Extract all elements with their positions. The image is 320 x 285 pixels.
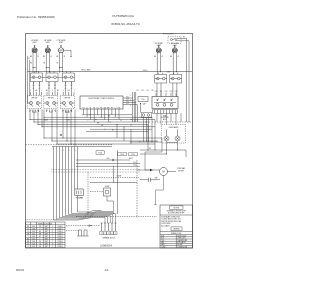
svg-text:GY: GY: [39, 236, 41, 238]
svg-text:BK: BK: [43, 56, 45, 58]
oven lamp B1: [164, 136, 169, 141]
svg-text:WHT: WHT: [45, 226, 48, 228]
svg-text:V: V: [39, 238, 40, 240]
svg-text:OVEN CTRL: OVEN CTRL: [177, 238, 185, 240]
EOC right side wires: [123, 97, 133, 99]
fan feed elbow: [145, 138, 162, 170]
svg-text:Publication No. 5995530026: Publication No. 5995530026: [17, 15, 55, 19]
svg-text:N: N: [47, 110, 48, 112]
infinite switch assembly A3: [60, 96, 74, 109]
svg-text:BLK: BLK: [32, 238, 35, 240]
svg-text:CONVECTION: CONVECTION: [177, 246, 187, 248]
EOC pin drop wires: [83, 113, 85, 115]
svg-text:CODE 8: CODE 8: [57, 246, 62, 248]
svg-text:P13: P13: [170, 91, 173, 93]
relay board K1: [152, 97, 178, 109]
svg-text:P14: P14: [175, 91, 178, 93]
console partition dashed left: [26, 144, 113, 146]
svg-text:240V: 240V: [167, 72, 171, 74]
dashed wire to terminal block: [66, 225, 100, 227]
svg-text:1: 1: [30, 90, 31, 92]
partition dashed right: [152, 121, 193, 123]
wires from left switches down: [33, 82, 35, 96]
svg-text:BK: BK: [27, 226, 29, 228]
right mid wire y150: [140, 149, 186, 151]
svg-text:WHT: WHT: [45, 236, 48, 238]
main bus wire y72: [28, 71, 193, 73]
center bus wires: [82, 114, 132, 116]
dotted wire above table: [26, 219, 59, 221]
svg-text:P2: P2: [137, 90, 139, 92]
svg-text:WIRE COLOR CODE: WIRE COLOR CODE: [38, 223, 52, 225]
svg-text:WHT: WHT: [45, 233, 48, 235]
terminal block label boxes: [100, 232, 103, 235]
lower bus top line: [52, 146, 112, 148]
svg-text:CODE 1: CODE 1: [57, 228, 62, 230]
svg-text:L05B0054: L05B0054: [100, 244, 112, 248]
relay output drop wires: [156, 113, 158, 122]
svg-text:HI-LIMIT: HI-LIMIT: [177, 244, 183, 246]
right edge wires from P9: [186, 46, 188, 122]
wires from right switches down: [156, 83, 158, 97]
svg-text:BK-W: BK-W: [44, 120, 49, 122]
label row ticks: [30, 92, 32, 96]
connector pair CN1: [142, 114, 145, 117]
svg-text:BU: BU: [27, 238, 29, 240]
svg-text:H2: H2: [57, 90, 59, 92]
svg-text:P12: P12: [165, 91, 168, 93]
svg-text:-19-: -19-: [104, 268, 109, 272]
svg-text:CODE 3: CODE 3: [57, 233, 62, 235]
svg-text:BLK: BLK: [32, 226, 35, 228]
bus right end drops: [151, 117, 153, 142]
svg-text:WHT: WHT: [45, 241, 48, 243]
svg-text:8/6/03: 8/6/03: [16, 268, 24, 272]
lower solid wire: [90, 182, 137, 184]
svg-text:MDL: MDL: [163, 119, 166, 121]
svg-text:GY: GY: [27, 243, 29, 245]
relay top pin wires: [155, 93, 157, 97]
svg-text:P7-B: P7-B: [131, 154, 134, 156]
svg-text:INF SW: INF SW: [32, 98, 38, 100]
mid horizontal wire 3: [57, 143, 155, 145]
switch assembly drop wires: [43, 110, 45, 139]
svg-text:BK: BK: [149, 148, 151, 150]
legend notes box: [160, 205, 193, 248]
svg-text:TOD: TOD: [161, 240, 164, 242]
svg-text:CODE 6: CODE 6: [57, 241, 62, 243]
switch tie wires: [43, 76, 47, 78]
svg-text:LEGEND: LEGEND: [173, 229, 180, 231]
svg-text:CONV: CONV: [161, 246, 165, 248]
svg-text:BLK: BLK: [32, 236, 35, 238]
element leads right duo: [156, 55, 158, 74]
surface switch S2: [46, 73, 58, 82]
lamp bottom drops: [166, 143, 168, 154]
svg-text:BK: BK: [154, 56, 156, 58]
svg-text:BR: BR: [97, 123, 99, 125]
svg-text:W/B43-SC-463A4-TC: W/B43-SC-463A4-TC: [111, 22, 141, 26]
relay connector strip: [153, 110, 178, 113]
lower horizontal wires: [76, 159, 130, 161]
svg-text:SWITCH SHOWN WITH THE: SWITCH SHOWN WITH THE: [161, 221, 181, 223]
svg-text:H1: H1: [30, 63, 32, 65]
svg-text:PLT568WKCQA: PLT568WKCQA: [112, 14, 134, 18]
svg-text:P1 CONN: P1 CONN: [76, 197, 84, 199]
svg-text:TN: TN: [39, 243, 41, 245]
svg-text:SP-12 RED: SP-12 RED: [81, 70, 91, 72]
oven lamp B2: [175, 136, 180, 141]
svg-text:H1: H1: [46, 90, 48, 92]
svg-text:P13: P13: [126, 99, 129, 101]
right lamp feed elbow: [158, 141, 174, 148]
electronic oven control EOC: [80, 96, 123, 109]
svg-text:P11: P11: [160, 91, 163, 93]
svg-text:OR: OR: [39, 226, 41, 228]
svg-text:WHT: WHT: [45, 238, 48, 240]
svg-text:P6: P6: [147, 90, 149, 92]
L2 feed wire: [29, 60, 31, 96]
svg-text:PK: PK: [39, 241, 41, 243]
svg-text:H2: H2: [35, 90, 37, 92]
mid horizontal wire 2: [52, 140, 158, 142]
infinite switch assembly A1: [27, 96, 41, 109]
svg-text:WHT: WHT: [45, 228, 48, 230]
infinite switch assembly A2: [44, 96, 58, 109]
svg-text:P14: P14: [126, 101, 129, 103]
svg-text:CODE 0: CODE 0: [57, 226, 62, 228]
element lead pair ties: [33, 67, 36, 69]
svg-text:▼ P9 LIGHTS: ▼ P9 LIGHTS: [163, 33, 175, 35]
svg-text:BLK: BLK: [32, 241, 35, 243]
svg-text:DLB: DLB: [161, 235, 164, 237]
dashed bundle line: [76, 215, 157, 217]
svg-text:DOOR OPEN.: DOOR OPEN.: [161, 223, 171, 225]
svg-text:R: R: [130, 125, 131, 127]
svg-text:BLK: BLK: [32, 231, 35, 233]
surface switch S4 (right rear): [155, 74, 167, 83]
svg-text:BLK: BLK: [32, 233, 35, 235]
svg-text:INF SW: INF SW: [65, 98, 71, 100]
door dashed wire: [90, 177, 139, 179]
svg-text:2: 2: [41, 90, 42, 92]
svg-text:BLK: BLK: [32, 246, 35, 248]
svg-text:V: V: [28, 246, 29, 248]
bus vertical drops right: [116, 124, 118, 138]
harness label cluster: [118, 153, 127, 156]
harness vertical pair: [117, 150, 119, 214]
svg-text:BK: BK: [183, 37, 185, 39]
svg-text:P15: P15: [126, 103, 129, 105]
CN1 drop wires: [143, 118, 145, 142]
relay contacts: [156, 103, 159, 106]
svg-text:P12: P12: [126, 97, 129, 99]
assembly drop connectors: [29, 110, 31, 120]
bus junction dots: [90, 114, 91, 115]
bundle elbows and diagonals: [54, 218, 106, 224]
thermal switch TOD: [138, 97, 148, 102]
svg-text:CODE 2: CODE 2: [57, 231, 62, 233]
svg-text:L1: L1: [28, 58, 30, 60]
dashed lead to comb: [66, 230, 79, 232]
svg-text:BR: BR: [39, 233, 41, 235]
svg-text:GN: GN: [39, 246, 41, 248]
bundle straight pair to P1: [74, 147, 76, 190]
svg-text:WHT: WHT: [45, 246, 48, 248]
lamp wires: [166, 130, 168, 137]
svg-text:P10: P10: [155, 91, 158, 93]
open terminal: [60, 134, 62, 136]
terminal block prongs: [101, 223, 103, 231]
svg-text:CODE 5: CODE 5: [57, 238, 62, 240]
svg-text:M: M: [162, 170, 164, 174]
svg-text:DOOR LOCK: DOOR LOCK: [177, 235, 186, 237]
legend table header: [160, 231, 193, 233]
svg-text:BU: BU: [39, 231, 41, 233]
wire bundle to latch: [132, 92, 134, 122]
svg-text:BK: BK: [30, 56, 32, 58]
svg-text:BLK: BLK: [32, 228, 35, 230]
svg-text:RF-RR: RF-RR: [65, 112, 71, 114]
dotted partition lines: [52, 169, 141, 171]
svg-text:N: N: [30, 110, 31, 112]
dashed vertical partition right of bundle: [87, 172, 89, 216]
svg-text:NOTES: NOTES: [173, 208, 179, 210]
svg-text:WHT: WHT: [45, 243, 48, 245]
mid horizontal wire 1: [44, 137, 162, 139]
svg-text:H1: H1: [56, 63, 58, 65]
svg-text:BR: BR: [27, 241, 29, 243]
surface switch S3: [63, 73, 75, 82]
legend table: [175, 235, 177, 248]
svg-text:Y: Y: [88, 120, 89, 122]
oven light drop wire: [107, 196, 114, 214]
mid label box: [96, 151, 104, 154]
L1 feed wire: [27, 56, 29, 103]
svg-text:EOC: EOC: [161, 238, 164, 240]
svg-text:OR: OR: [101, 125, 103, 127]
svg-text:OR: OR: [27, 233, 29, 235]
surface switch S1: [31, 73, 43, 82]
element leads left trio: [32, 55, 34, 73]
svg-text:BK: BK: [56, 56, 58, 58]
svg-text:Y: Y: [39, 228, 40, 230]
surface switch S5 (right front): [170, 74, 182, 83]
svg-text:R: R: [28, 231, 29, 233]
svg-text:DLB: DLB: [107, 158, 110, 160]
svg-text:Y: Y: [28, 236, 29, 238]
vertical wire bundle: [53, 147, 55, 221]
schematic border frame: [26, 34, 193, 249]
svg-text:WHT: WHT: [45, 231, 48, 233]
svg-text:N: N: [63, 110, 64, 112]
svg-text:CODE 7: CODE 7: [57, 243, 62, 245]
bus left end dots: [44, 117, 45, 118]
convection fan motor M1: [160, 168, 168, 176]
svg-text:BLK: BLK: [32, 243, 35, 245]
svg-text:INF SW: INF SW: [48, 98, 54, 100]
extra bundle vertical: [136, 105, 138, 122]
svg-text:ELECTRONIC OVEN CONTROL: ELECTRONIC OVEN CONTROL: [89, 98, 115, 100]
svg-text:H1: H1: [43, 63, 45, 65]
svg-text:SP-10: SP-10: [143, 70, 148, 72]
svg-text:BK: BK: [170, 56, 172, 58]
center element side elbow: [64, 50, 71, 56]
legend title box: [171, 227, 182, 231]
svg-text:OVEN: OVEN: [105, 186, 109, 188]
svg-text:P4: P4: [142, 90, 144, 92]
svg-text:CODE 4: CODE 4: [57, 236, 62, 238]
legend title small box: [170, 206, 184, 209]
svg-text:P8: P8: [152, 90, 154, 92]
svg-text:GY: GY: [112, 129, 114, 131]
lamp bottom wire left: [130, 141, 162, 143]
door switch comb left: [79, 230, 82, 236]
capacitor C1: [140, 179, 149, 181]
oven lamp assembly dashed box: [162, 125, 186, 144]
legend separator: [160, 214, 193, 216]
svg-text:MOTOR: MOTOR: [178, 170, 184, 172]
fan diode: [150, 169, 153, 172]
svg-text:H: H: [54, 110, 55, 112]
svg-text:MDL: MDL: [161, 242, 164, 244]
connector P1 box: [75, 189, 84, 196]
svg-text:H1: H1: [68, 90, 70, 92]
ground wire stub: [156, 176, 164, 205]
assembly pin stubs: [29, 110, 31, 113]
partition dashed vertical: [136, 160, 138, 218]
wire color code table: [26, 222, 66, 248]
